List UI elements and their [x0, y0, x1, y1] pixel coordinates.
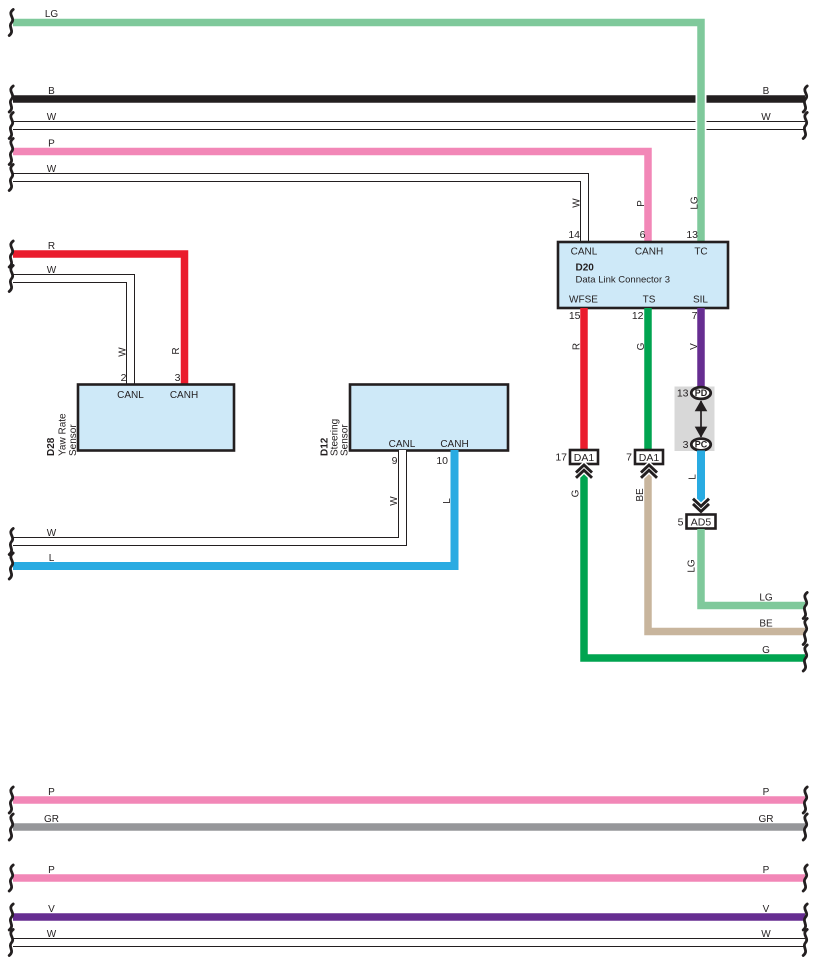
pin 15 (D20 WFSE)	[569, 310, 581, 322]
svg-text:SIL: SIL	[693, 295, 708, 306]
svg-text:Sensor: Sensor	[68, 424, 79, 456]
svg-text:V: V	[763, 904, 770, 915]
svg-text:PD: PD	[695, 388, 708, 398]
svg-text:13: 13	[677, 388, 689, 400]
svg-text:L: L	[442, 498, 453, 504]
connector DA1 pin 7	[626, 450, 663, 478]
svg-text:B: B	[48, 86, 55, 97]
pin 14 (D20 CANL)	[568, 229, 580, 241]
svg-text:CANH: CANH	[440, 439, 468, 450]
svg-text:V: V	[689, 343, 700, 350]
svg-text:6: 6	[640, 229, 646, 241]
pin 7 (D20 SIL)	[692, 310, 698, 322]
svg-text:V: V	[48, 904, 55, 915]
svg-text:W: W	[47, 265, 57, 276]
svg-text:CANL: CANL	[117, 390, 144, 401]
svg-text:R: R	[171, 347, 182, 354]
wire P bus (full width)	[9, 787, 807, 813]
shield arrow (double headed)	[695, 400, 708, 437]
svg-text:L: L	[49, 553, 55, 564]
svg-text:BE: BE	[635, 488, 646, 502]
svg-text:Sensor: Sensor	[340, 424, 351, 456]
pin 13 (shield PD)	[677, 388, 689, 400]
svg-text:PC: PC	[695, 440, 708, 450]
svg-text:W: W	[761, 929, 771, 940]
svg-text:TS: TS	[643, 295, 656, 306]
svg-text:10: 10	[436, 455, 448, 467]
svg-text:5: 5	[678, 517, 684, 529]
svg-text:P: P	[636, 200, 647, 207]
svg-text:R: R	[48, 241, 55, 252]
connector DA1 pin 17	[555, 450, 598, 478]
svg-text:AD5: AD5	[691, 517, 712, 529]
wire W bus (full width, bottom)	[9, 929, 807, 956]
connector D20 Data Link Connector 3	[558, 242, 728, 308]
pin 12 (D20 TS)	[632, 310, 644, 322]
svg-text:CANH: CANH	[170, 390, 198, 401]
wire W (bus below B, full width)	[9, 112, 807, 139]
pin 6 (D20 CANH)	[640, 229, 646, 241]
wire P from left edge to D20 pin 6 CANH	[9, 139, 648, 243]
wire LG below AD5 to right edge	[687, 529, 808, 619]
terminal PD	[691, 387, 710, 399]
svg-text:3: 3	[175, 372, 181, 384]
pin 3 (D28 CANH)	[175, 372, 181, 384]
svg-text:Data Link Connector 3: Data Link Connector 3	[576, 275, 671, 286]
svg-text:L: L	[688, 474, 699, 480]
svg-text:G: G	[571, 489, 582, 497]
svg-text:D20: D20	[576, 263, 595, 274]
wire W from left edge to D28 pin 2 CANL	[9, 265, 130, 385]
svg-text:14: 14	[568, 229, 580, 241]
svg-text:P: P	[48, 139, 55, 150]
shield block (gray)	[675, 387, 715, 452]
svg-text:CANL: CANL	[571, 247, 598, 258]
terminal PC	[691, 439, 710, 451]
svg-text:15: 15	[569, 310, 581, 322]
svg-text:P: P	[48, 787, 55, 798]
svg-text:P: P	[763, 865, 770, 876]
svg-text:W: W	[761, 112, 771, 123]
pin 9 (D12 CANL)	[392, 455, 398, 467]
svg-text:17: 17	[555, 452, 567, 464]
svg-text:2: 2	[121, 372, 127, 384]
svg-text:12: 12	[632, 310, 644, 322]
svg-text:LG: LG	[687, 559, 698, 573]
svg-text:9: 9	[392, 455, 398, 467]
pin 3 (shield PC)	[683, 439, 689, 451]
svg-text:LG: LG	[45, 9, 59, 20]
svg-text:TC: TC	[694, 247, 707, 258]
svg-text:CANH: CANH	[635, 247, 663, 258]
svg-text:LG: LG	[690, 196, 701, 210]
wire GR bus (full width)	[9, 814, 807, 840]
wire W from left edge to D20 pin 14 CANL	[9, 164, 584, 242]
wire V bus (full width)	[9, 904, 807, 930]
svg-text:LG: LG	[759, 593, 773, 604]
wire R from left edge to D28 pin 3 CANH	[9, 241, 184, 385]
svg-text:W: W	[389, 496, 400, 506]
svg-text:P: P	[763, 787, 770, 798]
wire L from shield PC to connector AD5 pin 5	[688, 451, 710, 512]
svg-text:G: G	[762, 645, 770, 656]
svg-text:GR: GR	[44, 814, 59, 825]
svg-text:GR: GR	[759, 814, 774, 825]
svg-text:3: 3	[683, 439, 689, 451]
wire V from D20 SIL to shield terminal PD	[689, 308, 701, 387]
pin 2 (D28 CANL)	[121, 372, 127, 384]
svg-text:CANL: CANL	[389, 439, 416, 450]
wire LG from left edge to D20 pin 13 TC	[9, 9, 701, 242]
svg-text:B: B	[763, 86, 770, 97]
wire B (ground bus, full width)	[9, 86, 807, 112]
svg-text:BE: BE	[759, 619, 773, 630]
pin 13 (D20 TC)	[686, 229, 698, 241]
wire L from D12 pin 10 to left edge	[9, 450, 454, 579]
svg-text:W: W	[47, 528, 57, 539]
svg-text:7: 7	[692, 310, 698, 322]
svg-text:W: W	[47, 929, 57, 940]
wire P bus 2 (full width)	[9, 865, 807, 891]
connector D28 Yaw Rate Sensor	[46, 385, 234, 457]
svg-text:W: W	[47, 164, 57, 175]
svg-text:13: 13	[686, 229, 698, 241]
pin 10 (D12 CANH)	[436, 455, 448, 467]
svg-text:W: W	[118, 347, 129, 357]
svg-text:Yaw Rate: Yaw Rate	[58, 413, 69, 456]
connector AD5 pin 5	[678, 515, 716, 529]
connector D12 Steering Sensor	[320, 385, 509, 457]
svg-text:W: W	[572, 198, 583, 208]
svg-text:R: R	[572, 343, 583, 350]
svg-text:D28: D28	[46, 437, 57, 456]
svg-text:P: P	[48, 865, 55, 876]
svg-text:W: W	[47, 112, 57, 123]
svg-text:G: G	[636, 342, 647, 350]
wire BE below DA1 pin 7 to right edge	[635, 470, 807, 645]
wire G from D20 TS to connector DA1 pin 7	[636, 308, 648, 450]
wire G below DA1 pin 17 to right edge	[571, 470, 808, 671]
wire W from D12 pin 9 to left edge	[9, 450, 402, 555]
wire R from D20 WFSE to connector DA1 pin 17	[572, 308, 585, 450]
svg-text:WFSE: WFSE	[569, 295, 598, 306]
svg-text:7: 7	[626, 452, 632, 464]
